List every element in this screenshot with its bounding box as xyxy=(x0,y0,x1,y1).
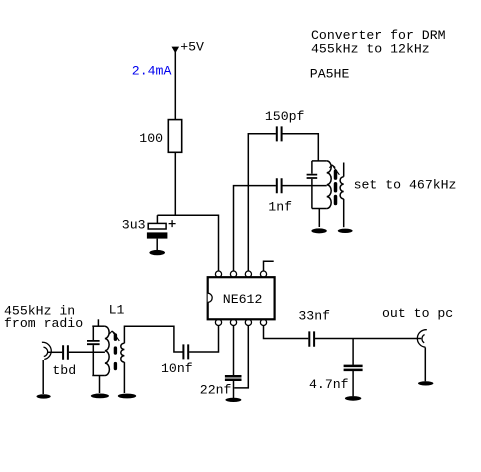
wire tbd cap to L1 tap xyxy=(69,351,105,353)
capacitor 22nf plates xyxy=(225,376,242,380)
L1 secondary ground wire xyxy=(123,362,125,393)
svg-text:tbd: tbd xyxy=(52,363,76,378)
wire 10nf to pin1 xyxy=(189,326,218,353)
capacitor 33nf plates xyxy=(309,331,314,346)
svg-text:NE612: NE612 xyxy=(223,292,263,307)
capacitor 1nf plates xyxy=(277,178,282,193)
output connector ground wire xyxy=(424,347,426,381)
svg-text:out to pc: out to pc xyxy=(382,306,453,321)
osc coil primary winding xyxy=(327,161,332,209)
svg-text:10nf: 10nf xyxy=(161,361,193,376)
L1 tuning arrow xyxy=(109,331,119,341)
ground below 22nf xyxy=(225,398,241,402)
wire connector to tbd cap xyxy=(48,351,63,353)
L1 ground wire xyxy=(99,376,101,394)
svg-text:455kHz to 12kHz: 455kHz to 12kHz xyxy=(311,42,430,57)
IC U1 NE612 bottom pin circles xyxy=(215,319,266,325)
capacitor 10nf plates xyxy=(183,344,188,359)
osc coil secondary winding xyxy=(340,177,344,199)
wire R to node xyxy=(174,152,176,215)
ground below osc coil xyxy=(311,228,326,233)
svg-text:33nf: 33nf xyxy=(298,308,330,323)
osc secondary top stub xyxy=(343,163,345,177)
osc parallel capacitor branch lower xyxy=(311,179,313,209)
L1 core dashes xyxy=(114,335,117,368)
svg-text:from radio: from radio xyxy=(4,316,83,331)
L1 primary winding xyxy=(105,326,110,375)
svg-text:+5V: +5V xyxy=(180,40,204,55)
svg-text:1nf: 1nf xyxy=(268,200,292,215)
wire pin4 to 33nf xyxy=(264,326,309,339)
pin5 open stub xyxy=(264,261,274,271)
output connector J2 outer arc xyxy=(417,330,426,348)
capacitor C 3u3 negative plate xyxy=(147,232,168,238)
ground below 4.7nf xyxy=(345,396,361,401)
L1 parallel capacitor branch lower xyxy=(92,345,94,375)
svg-text:100: 100 xyxy=(139,131,163,146)
ground below osc secondary xyxy=(338,229,353,233)
ground below output connector xyxy=(418,381,433,385)
ground below 3u3 xyxy=(149,250,165,255)
wire junction to 4.7nf xyxy=(352,339,354,365)
svg-text:set to 467kHz: set to 467kHz xyxy=(354,177,457,192)
osc parallel capacitor plates xyxy=(307,175,318,178)
wire 1nf net to pin7 xyxy=(234,186,276,272)
osc parallel capacitor branch upper xyxy=(311,161,313,174)
ground below L1 secondary xyxy=(118,394,136,399)
L1 top stub xyxy=(97,319,99,326)
wire 3u3 to ground xyxy=(156,239,158,251)
svg-text:3u3: 3u3 xyxy=(122,218,146,233)
wire 150pf to osc top xyxy=(282,134,318,161)
title text block xyxy=(310,28,446,82)
resistor 100 body xyxy=(168,120,181,153)
wire node to pin8 xyxy=(157,215,218,271)
IC U1 NE612 body xyxy=(208,277,275,319)
L1 secondary top wire to 10nf xyxy=(124,326,182,352)
wire 33nf to output connector xyxy=(315,338,421,340)
wire pin3 to 22nf ground node xyxy=(234,326,248,388)
capacitor C 3u3 plus plate xyxy=(148,223,166,229)
capacitor tbd plates xyxy=(63,345,68,359)
ground below input connector xyxy=(37,394,51,398)
L1 parallel capacitor plates xyxy=(87,341,100,344)
L1 parallel capacitor branch upper xyxy=(92,326,94,340)
capacitor 150pf plates xyxy=(277,126,282,141)
wire 150pf net from pin6 xyxy=(248,134,276,271)
svg-text:4.7nf: 4.7nf xyxy=(309,377,349,392)
IC U1 pin1 notch xyxy=(208,293,212,302)
wire 22nf to ground xyxy=(233,381,235,399)
svg-text:2.4mA: 2.4mA xyxy=(132,64,172,79)
input connector J1 outer arc xyxy=(42,342,51,359)
capacitor C 3u3 plus sign xyxy=(169,220,176,227)
osc coil tuning arrow xyxy=(329,165,339,175)
svg-text:PA5HE: PA5HE xyxy=(310,67,350,82)
L1 bottom node xyxy=(92,375,105,377)
svg-text:150pf: 150pf xyxy=(265,109,305,124)
IC U1 NE612 top pin circles xyxy=(215,271,266,277)
output connector J2 inner arc xyxy=(422,335,425,343)
osc coil ground wire xyxy=(318,209,320,228)
capacitor 4.7nf plates xyxy=(344,366,363,370)
wire pin2 to 22nf xyxy=(233,326,235,376)
input connector J1 inner arc xyxy=(44,347,48,356)
wire +5V to R xyxy=(174,51,176,120)
+5V supply arrow xyxy=(172,47,180,54)
osc coil core dashes xyxy=(334,171,338,203)
L1 secondary winding xyxy=(121,343,125,362)
svg-text:L1: L1 xyxy=(109,302,125,317)
osc coil bottom node xyxy=(312,208,327,210)
ground below L1 xyxy=(91,394,109,399)
osc secondary ground wire xyxy=(343,199,345,227)
wire 4.7nf to ground xyxy=(352,371,354,396)
input connector ground wire xyxy=(42,360,44,394)
svg-text:22nf: 22nf xyxy=(200,382,232,397)
L1 top node xyxy=(92,325,105,327)
wire 1nf to osc tap xyxy=(282,185,326,187)
oscillator coil top node xyxy=(312,160,327,162)
capacitor 3u3 stub xyxy=(156,215,158,223)
